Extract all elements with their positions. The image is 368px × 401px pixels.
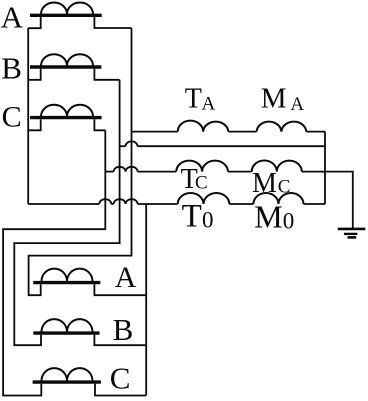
inductor M0 [253, 193, 303, 204]
wire row 4 segment [111, 203, 113, 205]
wire row 1 to right bus [306, 131, 325, 133]
wire bottom CT A right terminal [94, 284, 146, 295]
inductor MC [252, 161, 302, 172]
wire row 2 from B bus [120, 145, 126, 147]
wire hop row 4 over C bus [99, 199, 111, 204]
svg-text:B: B [113, 312, 134, 347]
wire right bus vertical [324, 132, 326, 204]
inductor T0 [178, 193, 230, 204]
wire B left terminal step [28, 69, 41, 80]
wire row 4 to right bus [304, 203, 326, 205]
wire row 4 from left bus [28, 203, 99, 205]
wire row 1 between TA and MA [228, 131, 256, 133]
transformer winding A (bottom CT, coil arcs) [42, 269, 93, 282]
wire hop row 3 over B bus [114, 167, 126, 172]
wire row 3 between TC and MC [228, 171, 252, 173]
inductor MA [257, 122, 307, 132]
wire A right terminal step [94, 17, 131, 28]
inductor TA [178, 121, 229, 132]
wire hop row 2 over A bus [126, 141, 138, 146]
wire C left terminal step [28, 119, 41, 130]
transformer winding B (top CT, coil arcs) [41, 54, 93, 66]
wire phase C bus down to bottom CT C loop [3, 130, 105, 395]
wire phase B bus down to bottom CT B loop [14, 80, 119, 345]
transformer winding B (top CT, core bar) [30, 65, 101, 68]
svg-text:A: A [1, 0, 24, 35]
wire phase A bus down to bottom CT A loop [29, 28, 132, 295]
wire row 3 to ground [302, 172, 353, 230]
transformer winding C (bottom CT, coil arcs) [42, 368, 93, 381]
svg-text:A: A [115, 261, 137, 294]
svg-text:C: C [195, 173, 208, 194]
svg-text:T: T [182, 199, 202, 235]
svg-text:C: C [2, 100, 22, 133]
svg-text:M: M [261, 83, 287, 115]
transformer winding A (top CT, coil arcs) [41, 3, 93, 15]
wire hop row 3 over A bus [126, 167, 138, 172]
svg-text:B: B [1, 51, 22, 86]
transformer winding C (top CT, core bar) [30, 116, 102, 119]
svg-text:T: T [185, 83, 202, 114]
wire row 3 to TC [138, 171, 177, 173]
wire row 2 to right bus [138, 145, 326, 147]
svg-text:0: 0 [202, 208, 214, 233]
wire B right terminal step [94, 69, 119, 80]
svg-text:M: M [254, 199, 282, 235]
transformer winding B (bottom CT, core bar) [33, 331, 99, 334]
transformer winding B (bottom CT, coil arcs) [42, 319, 93, 332]
wire neutral bus down to bottom CTs [145, 204, 147, 396]
wire row 4 between T0 and M0 [229, 203, 253, 205]
wire C right terminal step [94, 119, 105, 130]
wire row 4 to T0 [138, 203, 178, 205]
svg-text:A: A [202, 93, 216, 114]
wire hop row 4 over A bus [126, 199, 138, 204]
wire hop row 4 over B bus [114, 199, 126, 204]
wire bottom CT C right terminal [95, 384, 146, 396]
transformer winding C (top CT, coil arcs) [41, 105, 93, 117]
svg-text:C: C [278, 177, 291, 198]
wire bottom CT B right terminal [94, 335, 146, 346]
svg-text:A: A [290, 94, 304, 115]
transformer winding A (top CT, core bar) [30, 14, 102, 17]
wire A left terminal step [28, 17, 41, 28]
svg-text:0: 0 [283, 208, 295, 233]
transformer winding A (bottom CT, core bar) [33, 281, 100, 284]
svg-text:M: M [252, 168, 277, 199]
transformer winding C (bottom CT, core bar) [33, 380, 101, 383]
wire row 3 from C bus [105, 171, 113, 173]
ground [338, 229, 366, 238]
wire row 1 from A bus [132, 131, 178, 133]
inductor TC [176, 161, 228, 172]
svg-text:C: C [110, 360, 131, 395]
wire left common bus to row 4 [27, 28, 29, 204]
